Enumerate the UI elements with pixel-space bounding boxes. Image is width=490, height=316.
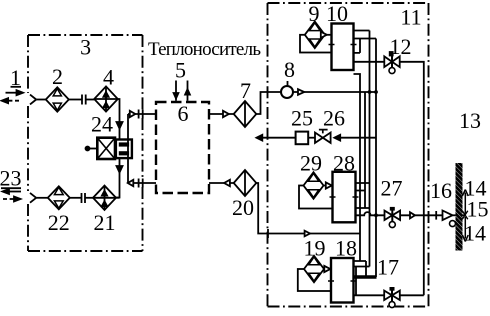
wire to HE6 bottom left xyxy=(128,182,156,184)
flow arrow into unit 18 xyxy=(324,266,330,272)
wall 13 xyxy=(456,163,463,251)
svg-text:16: 16 xyxy=(430,178,452,203)
wire heater 7 to pump 8 xyxy=(256,92,281,114)
junction dot xyxy=(374,90,378,94)
svg-text:11: 11 xyxy=(400,5,421,30)
wire fan 21 to recirculation line xyxy=(116,197,120,199)
damper 24 crossed box xyxy=(97,138,115,159)
wire sensor to 24 xyxy=(88,148,98,150)
relief pipe with 25 26 xyxy=(262,137,296,139)
valve 26 xyxy=(315,130,331,143)
enclosure box 11 (air handling units room) xyxy=(268,3,429,307)
pump 8 xyxy=(281,81,293,98)
wire 26 to riser V4 xyxy=(340,137,376,139)
filter 2 xyxy=(46,87,69,111)
wire flex to fan 4 xyxy=(86,99,95,101)
svg-text:13: 13 xyxy=(459,108,481,133)
svg-text:9: 9 xyxy=(309,1,320,26)
svg-text:4: 4 xyxy=(103,65,114,90)
flow arrow into unit 10 xyxy=(321,32,327,38)
crossing ticks top xyxy=(139,110,143,119)
sensor dot of 24 xyxy=(85,146,91,152)
recirc pipe 20 to riser V1 xyxy=(256,183,360,234)
svg-text:17: 17 xyxy=(377,255,399,280)
air jet down xyxy=(462,217,468,242)
svg-text:7: 7 xyxy=(240,78,251,103)
flow arrow down xyxy=(117,122,123,129)
fan 4 xyxy=(94,86,118,111)
svg-text:24: 24 xyxy=(91,112,113,137)
flow arrow right xyxy=(298,89,304,95)
svg-text:20: 20 xyxy=(232,195,254,220)
junction dot xyxy=(374,213,378,217)
wire HE6 to heater 7 xyxy=(209,113,234,115)
junction dot xyxy=(368,90,372,94)
valve 12 xyxy=(384,51,399,74)
wire pump 8 to risers xyxy=(293,91,376,93)
valve 27 xyxy=(385,207,401,228)
filter 29 plenum xyxy=(299,186,333,209)
heat carrier return pipe xyxy=(187,81,189,101)
pipe valve 12 to merge riser xyxy=(400,62,424,295)
border tick xyxy=(267,229,269,238)
svg-text:5: 5 xyxy=(175,58,186,83)
svg-text:3: 3 xyxy=(80,35,91,60)
svg-text:18: 18 xyxy=(335,236,357,261)
flow arrow into unit 28 xyxy=(326,182,332,188)
flow arrow right xyxy=(305,231,310,237)
node 23 (exhaust outlet) xyxy=(0,166,22,202)
riser V2 xyxy=(364,92,366,208)
svg-text:27: 27 xyxy=(381,176,403,201)
unit 28 xyxy=(333,172,356,223)
riser V1 xyxy=(354,74,361,261)
pipe unit 10 to valve 12 xyxy=(354,61,385,63)
filter 9 plenum xyxy=(300,35,332,53)
thick stub xyxy=(354,275,377,278)
crossing tick xyxy=(435,211,437,220)
wire filter 22 to flex xyxy=(70,197,81,199)
pipes of unit 18 xyxy=(354,261,370,295)
axis of unit 10 xyxy=(329,44,357,46)
zigzag into unit 10 xyxy=(354,39,361,53)
enclosure box 3 (supply/exhaust plant) xyxy=(28,35,143,251)
wire filter 2 to flex xyxy=(69,99,82,101)
air jet up xyxy=(462,190,468,214)
filter 22 xyxy=(48,186,70,209)
axis of unit 18 xyxy=(328,280,357,282)
svg-text:21: 21 xyxy=(94,210,116,235)
pipe unit 28 to valve 27 with hop xyxy=(356,212,385,215)
wire through wall xyxy=(453,214,466,216)
exhaust opening xyxy=(30,193,36,203)
svg-text:8: 8 xyxy=(284,57,295,82)
svg-text:10: 10 xyxy=(326,1,348,26)
damper 25 xyxy=(296,132,309,145)
crossing ticks bottom xyxy=(139,179,143,188)
heat exchanger 6 xyxy=(156,102,209,193)
duct stubs of unit 28 xyxy=(356,183,370,208)
bypass pipe at heat exchanger xyxy=(127,114,129,183)
intake opening xyxy=(30,95,36,105)
flow arrow left xyxy=(224,180,230,186)
riser V4 xyxy=(375,39,377,278)
flow arrow right xyxy=(410,212,415,218)
wire opening to filter 22 xyxy=(36,197,48,199)
pipe valve 17 to merge riser xyxy=(400,294,424,296)
svg-text:Теплоноситель: Теплоноситель xyxy=(148,39,261,60)
merged pipe to wall xyxy=(400,214,442,216)
svg-text:12: 12 xyxy=(390,34,412,59)
filter 19 xyxy=(304,256,324,283)
heater 20 xyxy=(234,170,257,196)
damper 24 actuator box xyxy=(116,140,132,159)
wire 25 to 26 xyxy=(308,137,315,139)
pipe unit 18 to valve 17 xyxy=(354,294,385,296)
unit 18 xyxy=(331,258,354,303)
filter 9 xyxy=(305,22,325,49)
svg-text:2: 2 xyxy=(52,64,63,89)
flow arrow left xyxy=(128,180,134,186)
check arrow left xyxy=(334,135,340,141)
flexible connection xyxy=(82,193,86,203)
wire recirculation lower xyxy=(116,158,120,197)
valve 17 xyxy=(384,287,400,308)
svg-text:15: 15 xyxy=(467,197,489,222)
wire inlet to filter 2 xyxy=(36,99,46,101)
flow arrow right xyxy=(130,111,136,117)
axis of unit 28 xyxy=(330,196,359,198)
svg-text:23: 23 xyxy=(0,166,22,191)
svg-text:22: 22 xyxy=(48,210,70,235)
duct stub pair of unit 10 xyxy=(354,31,377,39)
svg-text:28: 28 xyxy=(333,151,355,176)
wire fan 4 to recirculation line xyxy=(118,99,120,140)
svg-text:6: 6 xyxy=(178,101,189,126)
node 1 (outdoor air inlet) xyxy=(2,65,23,103)
svg-text:19: 19 xyxy=(304,236,326,261)
svg-text:29: 29 xyxy=(300,151,322,176)
fan 21 xyxy=(93,186,116,210)
heat carrier supply pipe xyxy=(175,81,177,101)
flow arrow right xyxy=(223,111,229,117)
svg-text:14: 14 xyxy=(464,221,486,246)
heater 7 xyxy=(234,101,257,127)
filter 19 plenum xyxy=(298,269,331,291)
wire to HE6 top left xyxy=(128,113,156,115)
filter 29 xyxy=(304,172,324,199)
wire flex to fan 21 xyxy=(85,197,93,199)
valve 16 xyxy=(443,211,456,227)
flexible connection xyxy=(82,95,86,105)
wire HE6 to heater 20 xyxy=(209,182,234,184)
unit 10 xyxy=(332,24,354,71)
riser V3 xyxy=(369,31,371,267)
flow arrow down xyxy=(117,166,123,173)
svg-text:25: 25 xyxy=(291,106,313,131)
discharge arrow left xyxy=(257,135,263,141)
svg-text:26: 26 xyxy=(323,106,345,131)
opening 15 marks xyxy=(462,211,468,220)
